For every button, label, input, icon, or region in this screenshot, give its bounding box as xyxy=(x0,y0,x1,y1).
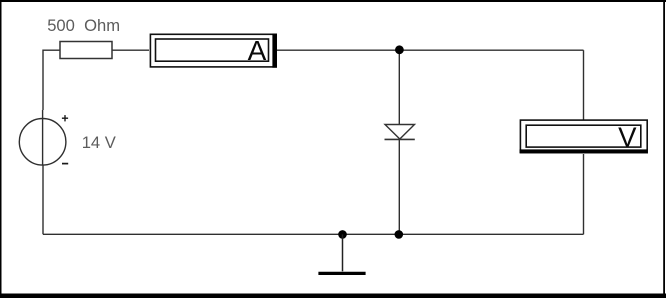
ammeter A xyxy=(150,34,277,68)
wire: source bottom to bottom rail xyxy=(42,165,44,234)
wire: bottom rail xyxy=(43,233,584,235)
ground xyxy=(318,272,365,275)
svg-text:V: V xyxy=(618,122,637,153)
wire: ammeter right to top-right corner xyxy=(276,49,584,51)
wire: diode branch upper xyxy=(398,50,400,124)
value label 500 Ohm xyxy=(47,16,120,35)
wire: diode branch lower xyxy=(398,139,400,234)
voltage source V1 xyxy=(19,110,66,165)
svg-text:14 V: 14 V xyxy=(82,133,116,152)
svg-text:500 Ohm: 500 Ohm xyxy=(47,16,120,35)
polarity + xyxy=(62,115,68,121)
wire: source top to resistor left xyxy=(43,50,60,110)
value label 14 V xyxy=(82,133,116,152)
wire: resistor right to ammeter left xyxy=(112,49,149,51)
node: ground junction xyxy=(338,230,347,239)
voltmeter V xyxy=(520,120,648,153)
svg-text:A: A xyxy=(248,35,267,66)
node: diode bottom junction xyxy=(395,230,404,239)
node: top junction xyxy=(395,45,404,54)
diode D1 xyxy=(385,125,415,140)
wire: voltmeter bottom to bottom rail xyxy=(583,154,585,234)
resistor R 500 Ohm xyxy=(60,42,112,59)
polarity - xyxy=(62,163,68,165)
wire: ground stem xyxy=(342,234,344,271)
wire: right vertical, top to voltmeter xyxy=(583,50,585,119)
